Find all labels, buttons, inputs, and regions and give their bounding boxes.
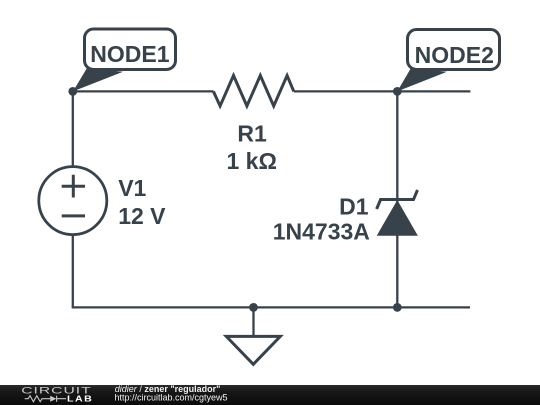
resistor R1: [213, 76, 293, 107]
svg-text:NODE2: NODE2: [415, 42, 494, 68]
svg-text:D1: D1: [339, 194, 369, 220]
junction dot at NODE2: [393, 87, 402, 96]
svg-text:LAB: LAB: [67, 395, 93, 405]
svg-text:1 kΩ: 1 kΩ: [226, 148, 276, 174]
node NODE2 flag box: [408, 30, 500, 70]
svg-text:V1: V1: [118, 175, 146, 201]
node NODE2 flag tail: [397, 68, 447, 91]
CircuitLab logo schematic glyph (resistor zigzag): [25, 396, 46, 402]
svg-text:1N4733A: 1N4733A: [273, 218, 370, 244]
node NODE1 flag tail: [73, 68, 123, 91]
svg-text:http://circuitlab.com/cgtyew5: http://circuitlab.com/cgtyew5: [115, 392, 228, 402]
wire bottom rail: [72, 306, 470, 308]
V1 plus sign: [62, 175, 85, 198]
svg-text:NODE1: NODE1: [90, 41, 169, 67]
ground: [226, 336, 280, 364]
junction dot bottom right: [393, 303, 402, 312]
wire left column (NODE1 down through V1 to bottom rail): [72, 91, 74, 307]
zener diode D1 anode triangle: [378, 201, 417, 235]
V1 minus sign: [62, 214, 85, 217]
junction dot at NODE1: [68, 87, 77, 96]
footer bar: [0, 385, 540, 405]
CircuitLab logo word CIRCUIT: [21, 385, 91, 396]
wire ground stub: [252, 307, 254, 336]
junction dot at ground node: [249, 303, 258, 312]
wire top rail right segment (R1 to right end): [294, 90, 471, 92]
svg-text:R1: R1: [237, 121, 267, 147]
voltage source V1 circle: [39, 167, 107, 235]
CircuitLab logo schematic glyph (diode): [50, 396, 56, 402]
node NODE1 flag box: [85, 29, 176, 70]
wire top rail left segment (NODE1 to R1): [73, 90, 214, 92]
zener diode D1 cathode bar: [377, 190, 418, 209]
CircuitLab logo word LAB: [67, 395, 93, 405]
svg-text:12 V: 12 V: [118, 203, 166, 229]
wire right column (NODE2 down through D1 to bottom rail): [396, 91, 398, 307]
